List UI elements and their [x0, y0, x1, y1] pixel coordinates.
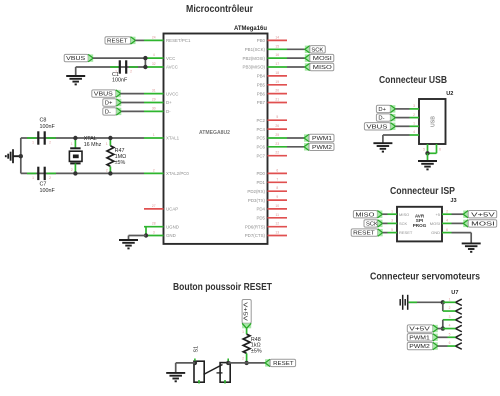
- svg-text:29: 29: [152, 98, 156, 102]
- svg-text:31: 31: [152, 89, 156, 93]
- svg-text:28: 28: [152, 222, 156, 226]
- svg-text:22: 22: [275, 151, 279, 155]
- svg-text:1: 1: [413, 122, 415, 126]
- svg-text:MOSI: MOSI: [313, 56, 332, 62]
- svg-text:10: 10: [275, 204, 279, 208]
- svg-text:V+5V: V+5V: [471, 212, 495, 218]
- svg-text:UCAP: UCAP: [166, 207, 178, 212]
- svg-text:2: 2: [449, 306, 451, 310]
- svg-text:D+: D+: [166, 100, 172, 105]
- svg-text:ATMega16u: ATMega16u: [234, 25, 267, 32]
- svg-text:PB2(MOSI): PB2(MOSI): [243, 56, 266, 61]
- svg-text:VBUS: VBUS: [66, 56, 85, 62]
- svg-text:6: 6: [449, 341, 451, 345]
- svg-text:3: 3: [153, 231, 155, 235]
- svg-text:100nF: 100nF: [40, 124, 56, 130]
- svg-text:5: 5: [423, 148, 425, 152]
- svg-text:16 Mhz: 16 Mhz: [84, 142, 102, 148]
- svg-text:13: 13: [275, 231, 279, 235]
- svg-text:PD6(RTS): PD6(RTS): [245, 224, 266, 229]
- svg-text:1: 1: [32, 141, 34, 145]
- svg-text:±5%: ±5%: [115, 160, 126, 166]
- svg-text:D+: D+: [378, 107, 386, 113]
- svg-text:USB: USB: [431, 116, 437, 127]
- svg-text:7: 7: [276, 177, 278, 181]
- svg-text:PB5: PB5: [257, 83, 266, 88]
- svg-text:VCC: VCC: [166, 56, 175, 61]
- svg-text:30: 30: [152, 106, 156, 110]
- svg-text:VBUS: VBUS: [94, 92, 113, 98]
- svg-text:PB4: PB4: [257, 74, 266, 79]
- svg-text:PC7: PC7: [256, 153, 265, 158]
- svg-text:32: 32: [152, 62, 156, 66]
- svg-text:PD0: PD0: [256, 171, 265, 176]
- svg-text:6: 6: [446, 228, 448, 232]
- svg-text:SCK: SCK: [366, 222, 378, 228]
- svg-text:U2: U2: [446, 91, 453, 97]
- svg-text:PWM2: PWM2: [312, 145, 332, 151]
- svg-text:PD3(TX): PD3(TX): [248, 198, 266, 203]
- svg-text:XTAL1: XTAL1: [166, 136, 180, 141]
- svg-text:PD7(CTS): PD7(CTS): [245, 233, 266, 238]
- svg-text:2: 2: [446, 209, 448, 213]
- svg-text:PC4: PC4: [256, 127, 265, 132]
- svg-text:3: 3: [391, 219, 393, 223]
- svg-text:ATMEGA8U2: ATMEGA8U2: [199, 130, 230, 136]
- svg-text:2: 2: [413, 113, 415, 117]
- svg-text:MISO: MISO: [355, 212, 375, 218]
- svg-text:PC5: PC5: [256, 136, 265, 141]
- svg-text:PB0: PB0: [257, 38, 266, 43]
- svg-text:8: 8: [276, 186, 278, 190]
- svg-text:100nF: 100nF: [40, 188, 56, 194]
- svg-text:D+: D+: [105, 101, 113, 107]
- svg-text:SCK: SCK: [311, 47, 323, 53]
- svg-text:11: 11: [276, 213, 280, 217]
- svg-text:9: 9: [276, 195, 278, 199]
- svg-text:27: 27: [152, 204, 156, 208]
- svg-text:25: 25: [275, 133, 279, 137]
- svg-text:RESET: RESET: [107, 39, 128, 45]
- svg-text:1: 1: [106, 142, 108, 146]
- svg-text:VBUS: VBUS: [366, 124, 387, 130]
- svg-text:+5: +5: [435, 212, 440, 217]
- svg-text:PD1: PD1: [256, 180, 265, 185]
- svg-text:UVCC: UVCC: [166, 91, 178, 96]
- svg-text:C8: C8: [40, 118, 47, 124]
- svg-text:4: 4: [449, 324, 451, 328]
- svg-text:MOSI: MOSI: [471, 222, 495, 228]
- svg-text:PB6: PB6: [257, 91, 266, 96]
- svg-text:1: 1: [391, 209, 393, 213]
- svg-text:GND: GND: [166, 233, 176, 238]
- svg-text:PWM1: PWM1: [312, 136, 332, 142]
- svg-text:2: 2: [130, 70, 132, 74]
- svg-text:14: 14: [275, 35, 279, 39]
- svg-text:5: 5: [391, 228, 393, 232]
- svg-text:6: 6: [276, 168, 278, 172]
- svg-text:3: 3: [449, 315, 451, 319]
- svg-text:MISO: MISO: [399, 212, 409, 217]
- svg-text:GND: GND: [431, 230, 440, 235]
- svg-text:PWM2: PWM2: [409, 344, 430, 350]
- svg-text:26: 26: [275, 124, 279, 128]
- svg-text:S1: S1: [194, 346, 200, 353]
- svg-text:AVCC: AVCC: [166, 65, 178, 70]
- svg-text:24: 24: [152, 35, 156, 39]
- svg-text:6: 6: [439, 148, 441, 152]
- svg-text:±5%: ±5%: [251, 348, 262, 354]
- svg-text:23: 23: [275, 142, 279, 146]
- svg-text:MOSI: MOSI: [430, 221, 440, 226]
- svg-text:16: 16: [275, 53, 279, 57]
- svg-text:21: 21: [275, 98, 279, 102]
- svg-text:XTAL2/PC0: XTAL2/PC0: [166, 171, 189, 176]
- svg-text:PWM1: PWM1: [409, 335, 430, 341]
- svg-text:Bouton poussoir RESET: Bouton poussoir RESET: [173, 282, 272, 293]
- svg-text:C7: C7: [40, 182, 47, 188]
- svg-text:D-: D-: [105, 110, 111, 116]
- svg-text:D-: D-: [378, 116, 384, 122]
- svg-text:SCK: SCK: [399, 221, 408, 226]
- svg-text:PC6: PC6: [256, 145, 265, 150]
- svg-text:2: 2: [71, 168, 73, 172]
- svg-text:4: 4: [446, 219, 448, 223]
- svg-text:3: 3: [413, 104, 415, 108]
- svg-text:18: 18: [275, 71, 279, 75]
- svg-text:20: 20: [275, 89, 279, 93]
- svg-text:2: 2: [153, 168, 155, 172]
- svg-text:XTAL: XTAL: [84, 136, 97, 142]
- svg-text:PD4: PD4: [256, 207, 265, 212]
- svg-text:5: 5: [449, 332, 451, 336]
- svg-text:2: 2: [106, 169, 108, 173]
- svg-text:5: 5: [276, 115, 278, 119]
- svg-text:2: 2: [49, 141, 51, 145]
- svg-text:V+5V: V+5V: [409, 327, 430, 333]
- svg-text:Connecteur USB: Connecteur USB: [379, 75, 447, 86]
- svg-text:15: 15: [275, 44, 279, 48]
- svg-text:PC2: PC2: [256, 118, 265, 123]
- svg-text:1: 1: [32, 176, 34, 180]
- svg-text:12: 12: [275, 222, 279, 226]
- svg-text:1: 1: [71, 142, 73, 146]
- svg-text:D-: D-: [166, 109, 171, 114]
- svg-text:PROG: PROG: [413, 223, 427, 228]
- svg-text:Microcontrôleur: Microcontrôleur: [186, 4, 253, 15]
- svg-text:V+5V: V+5V: [242, 302, 248, 321]
- svg-text:PB1(SCK): PB1(SCK): [245, 47, 266, 52]
- svg-text:RESET: RESET: [273, 361, 294, 367]
- svg-text:PB7: PB7: [257, 100, 266, 105]
- svg-text:1: 1: [449, 297, 451, 301]
- svg-text:RESET: RESET: [399, 230, 413, 235]
- svg-text:17: 17: [275, 62, 279, 66]
- svg-text:1: 1: [242, 330, 244, 334]
- svg-text:100nF: 100nF: [112, 78, 128, 84]
- svg-text:J3: J3: [450, 198, 456, 204]
- svg-text:RESET/PC1: RESET/PC1: [166, 38, 191, 43]
- svg-text:4: 4: [413, 130, 415, 134]
- svg-text:PB3(MISO): PB3(MISO): [243, 65, 266, 70]
- svg-text:2: 2: [49, 176, 51, 180]
- svg-text:Connecteur servomoteurs: Connecteur servomoteurs: [370, 271, 480, 282]
- svg-text:U7: U7: [451, 290, 458, 296]
- svg-text:PD2(RX): PD2(RX): [247, 189, 265, 194]
- svg-text:UGND: UGND: [166, 224, 179, 229]
- svg-text:PD5: PD5: [256, 216, 265, 221]
- svg-text:2: 2: [242, 357, 244, 361]
- svg-text:1: 1: [153, 133, 155, 137]
- svg-text:Connecteur ISP: Connecteur ISP: [390, 186, 455, 197]
- svg-text:MISO: MISO: [313, 65, 333, 71]
- svg-text:RESET: RESET: [353, 231, 375, 237]
- svg-text:4: 4: [153, 53, 155, 57]
- svg-text:19: 19: [275, 80, 279, 84]
